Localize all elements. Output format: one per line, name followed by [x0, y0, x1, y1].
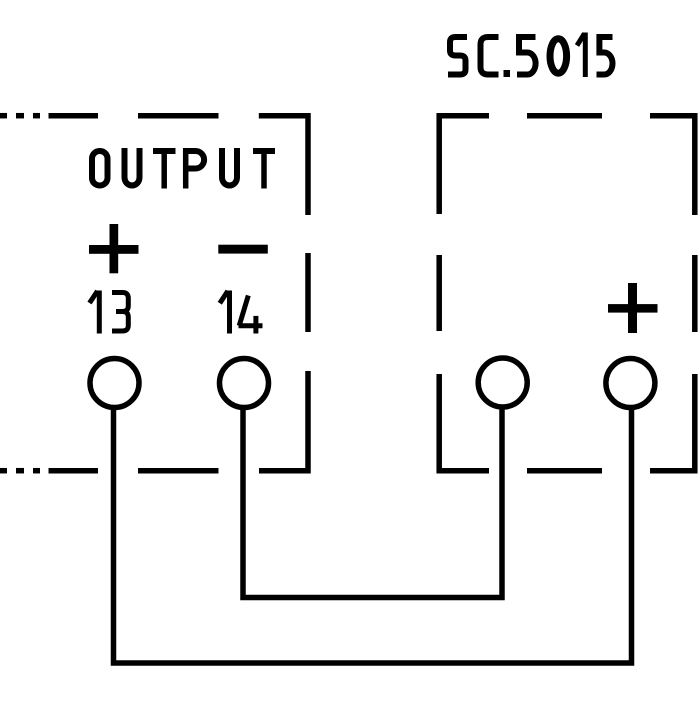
pin number 13: [90, 291, 129, 334]
wire 14 to controller terminal A: [243, 408, 502, 598]
controller box right edge dash: [692, 255, 698, 332]
pin number 14: [220, 291, 263, 334]
module outline left box bottom-right corner: [259, 371, 308, 471]
controller box bottom-right corner: [650, 374, 695, 471]
controller box left edge dash: [436, 255, 442, 331]
controller box bottom edge dash: [527, 468, 602, 474]
controller box top edge dash: [527, 113, 602, 119]
polarity minus sign (output 14): [218, 245, 267, 254]
label SC.5015: [448, 33, 613, 78]
polarity plus sign (controller right terminal): [608, 283, 658, 333]
module outline left box bottom edge: [0, 468, 219, 474]
terminal 14 circle: [220, 359, 269, 408]
module outline left box top-right corner: [259, 116, 308, 215]
polarity plus sign (output 13): [89, 224, 139, 273]
controller terminal A circle: [478, 358, 527, 407]
controller SC.5015 box top-left corner: [439, 116, 489, 214]
controller box bottom-left corner: [439, 374, 489, 471]
wire 13 to controller terminal B: [114, 408, 632, 663]
label OUTPUT: [92, 148, 275, 189]
module outline left box (dashed) top edge: [0, 113, 219, 119]
controller box top-right corner: [650, 116, 695, 215]
controller terminal B circle: [606, 359, 655, 408]
terminal 13 circle: [90, 359, 139, 408]
module outline left box right edge dash: [305, 253, 311, 332]
